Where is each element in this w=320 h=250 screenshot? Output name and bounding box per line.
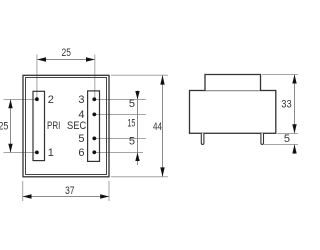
extension line box left vertical (37 dim) (22, 181, 24, 201)
dimension line 25 top (37, 59, 95, 61)
dimension line 5 (pin length) (294, 145, 296, 155)
dimension line 44 (162, 75, 164, 177)
dimension line 37 (23, 196, 109, 198)
extension line pin6 horizontal (96, 152, 143, 154)
svg-text:5: 5 (78, 133, 84, 145)
extension line pin2 horizontal (left 25 dim) (4, 99, 37, 101)
primary pin strip (33, 91, 45, 160)
svg-text:5: 5 (284, 133, 290, 145)
svg-text:5: 5 (129, 98, 135, 110)
side view right pin (261, 133, 264, 144)
pin 6 dot (92, 150, 96, 154)
svg-text:25: 25 (0, 121, 8, 133)
side view: extension line body bottom (33/5 dims) (278, 133, 299, 135)
svg-text:15: 15 (127, 117, 135, 129)
svg-text:1: 1 (48, 147, 54, 159)
dimension line 25 left (10, 100, 12, 153)
svg-text:25: 25 (62, 47, 71, 59)
top view inner case outline (26, 78, 107, 175)
svg-text:SEC: SEC (67, 120, 86, 132)
svg-text:2: 2 (48, 94, 54, 106)
secondary pin strip (88, 91, 100, 161)
svg-text:37: 37 (65, 185, 75, 197)
svg-text:6: 6 (78, 147, 84, 159)
dimension line 5/15/5 (137, 91, 139, 166)
dimension line 33 (294, 75, 296, 134)
extension line pin4 horizontal (96, 114, 146, 116)
side view: extension line pin bottom (5 dim) (264, 144, 298, 146)
top view outer case outline (23, 75, 109, 177)
side view top cap (205, 75, 261, 91)
extension line pin2 vertical (top 25 dim, left) (36, 55, 38, 100)
svg-text:5: 5 (129, 136, 135, 148)
extension line box bottom horizontal (44 dim) (111, 176, 168, 178)
extension line pin1 horizontal (left 25 dim) (4, 152, 37, 154)
svg-text:PRI: PRI (47, 120, 60, 132)
side view: extension line cap top (33 dim) (262, 74, 298, 76)
svg-text:44: 44 (153, 121, 162, 133)
pin 5 dot (92, 137, 96, 141)
pin 3 dot (92, 97, 96, 101)
pin 1 dot (35, 151, 39, 155)
svg-text:3: 3 (78, 94, 84, 106)
extension line pin3 horizontal (5/15/5 dims) (96, 99, 146, 101)
extension line pin3 vertical (top 25 dim, right) (94, 55, 96, 100)
pin 2 dot (35, 97, 39, 101)
svg-text:33: 33 (281, 98, 291, 110)
side view left pin (201, 133, 204, 144)
extension line pin5 horizontal (96, 138, 146, 140)
extension line box top horizontal (44 dim) (111, 74, 168, 76)
pin 4 dot (92, 113, 96, 117)
extension line box right vertical (37 dim) (108, 181, 110, 201)
side view body (190, 91, 276, 134)
